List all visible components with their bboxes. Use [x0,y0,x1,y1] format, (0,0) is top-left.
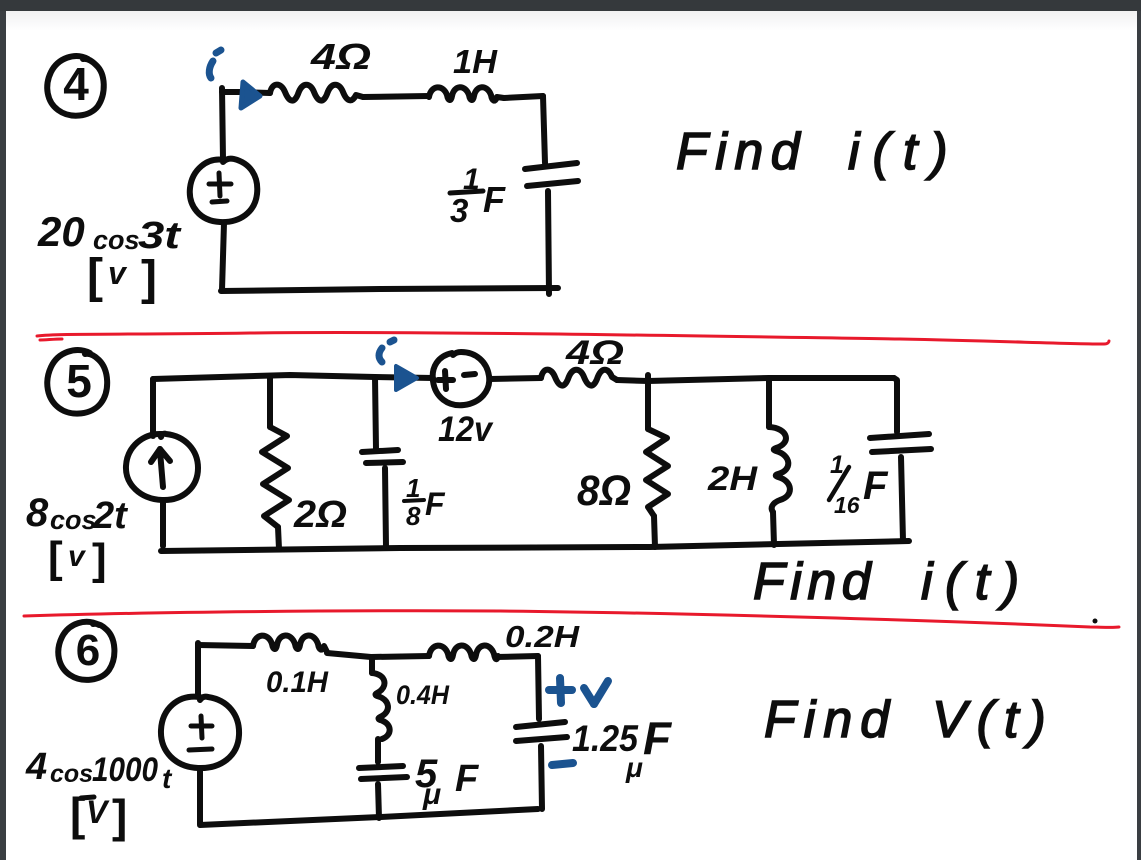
stray dot [1093,619,1098,624]
wire middle top segment [327,653,429,657]
svg-text:]: ] [112,790,127,842]
inductor 0.4H vertical bottom [375,739,381,762]
svg-text:F: F [425,486,446,522]
resistor 8ohm vertical bottom [654,516,655,547]
V1 plus sign [209,182,231,187]
inductor 2H vertical bottom [773,512,774,545]
resistor 2ohm vertical wire bottom [278,527,279,549]
label 1/3 F [450,163,506,229]
left vertical wire top [195,643,201,697]
svg-text:3t: 3t [138,215,182,257]
inductor 0.4H vertical top [369,659,375,673]
svg-text:cos: cos [50,505,97,535]
svg-text:F: F [455,758,480,800]
svg-text:2t: 2t [92,495,128,537]
capacitor 1.25uF top plate [516,722,565,727]
wire between resistor and inductor [363,96,429,97]
blue minus label [552,763,573,765]
V2 minus sign [189,749,212,750]
wire left vertical top [222,88,223,159]
capacitor 5uF vertical bottom [378,784,379,818]
frame right strip [1137,11,1141,860]
capacitor 1/16F vertical bottom [901,457,903,541]
inductor 2H vertical top [766,378,772,427]
svg-text:2H: 2H [707,460,759,498]
svg-text:[: [ [87,250,103,303]
blue current label i problem 5 [379,340,394,362]
top wire problem 5 [153,375,433,379]
svg-text:3: 3 [450,192,468,229]
capacitor 1/8F top plate [362,450,398,452]
svg-text:]: ] [141,252,157,305]
capacitor 1/8F bottom plate [366,462,403,463]
resistor 2ohm vertical wire top [267,376,273,427]
circle label 4 [47,56,104,116]
capacitor 5uF bottom plate [361,777,407,779]
circle label 6 [58,622,114,680]
capacitor 1/8F vertical wire bottom [385,468,386,547]
blue current arrow problem 5 [396,366,417,390]
svg-text:]: ] [92,535,107,584]
svg-text:1H: 1H [453,43,498,80]
svg-text:20: 20 [37,208,85,255]
capacitor 1/16F bottom plate [872,449,931,452]
svg-text:8: 8 [406,501,421,531]
current source arrow [160,451,163,487]
right vertical wire bottom [541,746,542,809]
svg-text:F: F [483,179,506,220]
wire bottom [221,288,558,291]
svg-text:5: 5 [66,355,92,407]
svg-text:v: v [108,255,128,291]
wire source to resistor 4ohm [490,378,541,379]
left vertical wire [150,379,156,436]
red divider line 2 [24,611,1119,628]
label 1/8 F [404,473,446,531]
12v minus sign [464,374,475,375]
voltage source V1 circle [190,159,257,222]
wire right vertical upper [543,96,545,163]
V2 plus sign [191,724,212,729]
left vertical wire bottom [197,769,203,824]
svg-text:i(t): i(t) [921,553,1032,611]
svg-text:0.4H: 0.4H [396,680,449,710]
svg-text:F: F [863,464,889,508]
resistor R 4ohm [270,85,363,101]
svg-text:4: 4 [63,58,89,110]
inductor L 1H [429,87,504,100]
resistor 4ohm problem 5 [541,370,617,386]
svg-text:8Ω: 8Ω [577,467,631,515]
svg-text:0.2H: 0.2H [505,619,580,654]
label 1/16 F [829,451,889,518]
voltage source 12v circle [433,352,490,405]
right vertical wire top [538,656,539,719]
svg-text:6: 6 [76,626,100,675]
voltage source V2 circle [161,697,239,768]
resistor 8ohm vertical top [645,375,651,429]
blue current arrow [241,82,260,108]
frame top bar [0,0,1141,11]
top shadow gradient [6,11,1137,31]
wire inductor 0.2H to right corner [496,656,538,657]
top right corner down [894,378,897,432]
svg-text:2Ω: 2Ω [293,494,347,536]
svg-text:12v: 12v [438,410,494,449]
inductor 2H coil [769,427,790,512]
capacitor 1/8F vertical wire top [375,377,376,449]
svg-text:v: v [68,540,87,573]
svg-text:4Ω: 4Ω [310,36,371,77]
svg-text:μ: μ [625,752,643,783]
svg-text:Find: Find [676,123,807,181]
inductor 0.2H [429,645,498,659]
svg-text:Find: Find [753,553,876,611]
svg-text:16: 16 [834,492,860,518]
capacitor C 1/3F top plate [525,163,577,169]
svg-text:4: 4 [25,746,47,788]
top wire left segment [198,645,253,646]
wire inductor to right corner [504,96,543,98]
bottom wire problem 6 [200,809,538,825]
svg-text:4Ω: 4Ω [565,334,624,372]
frame left strip [0,11,6,860]
svg-text:F: F [643,712,673,764]
blue +V label [549,678,608,765]
wire top from corner to resistor [222,92,270,93]
circle label 5 [47,350,107,414]
capacitor C 1/3F bottom plate [527,181,578,186]
svg-text:8: 8 [26,491,49,535]
capacitor 5uF top plate [359,766,403,768]
resistor 2ohm [262,427,289,527]
capacitor 1.25uF bottom plate [516,737,567,741]
wire below current source [160,500,166,546]
svg-text:i(t): i(t) [848,123,961,181]
12v plus sign [438,377,453,383]
svg-text:μ: μ [422,778,441,811]
svg-text:[: [ [48,533,63,582]
current source I1 circle [126,434,198,500]
wire right vertical lower [548,191,549,294]
red divider line 1 [37,333,1109,344]
svg-text:Find: Find [764,691,897,749]
svg-text:V(t): V(t) [932,691,1056,749]
V1 minus sign [212,201,227,202]
resistor 8ohm [646,429,668,516]
svg-text:0.1H: 0.1H [266,666,329,699]
inductor 0.4H coil [372,673,390,739]
capacitor 1/16F top plate [870,434,929,438]
blue current label i [209,50,221,78]
svg-text:1000: 1000 [92,751,158,789]
inductor 0.1H [253,635,327,652]
svg-text:cos: cos [50,760,93,788]
top wire right section [617,378,894,381]
wire left vertical bottom [222,223,224,290]
bottom wire problem 5 [161,541,909,551]
